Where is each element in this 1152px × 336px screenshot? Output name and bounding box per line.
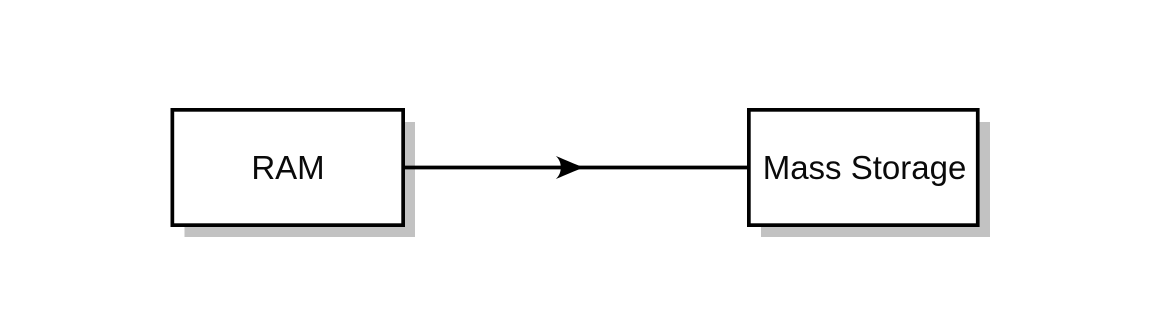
shadow of Mass Storage box: [761, 122, 990, 237]
box Mass Storage: [749, 110, 978, 225]
svg-text:RAM: RAM: [251, 149, 324, 186]
box RAM: [172, 110, 403, 225]
wire arrow from RAM to Mass Storage: [404, 166, 748, 170]
arrowhead: [556, 156, 585, 179]
svg-text:Mass Storage: Mass Storage: [763, 149, 967, 186]
shadow of RAM box: [185, 122, 416, 237]
